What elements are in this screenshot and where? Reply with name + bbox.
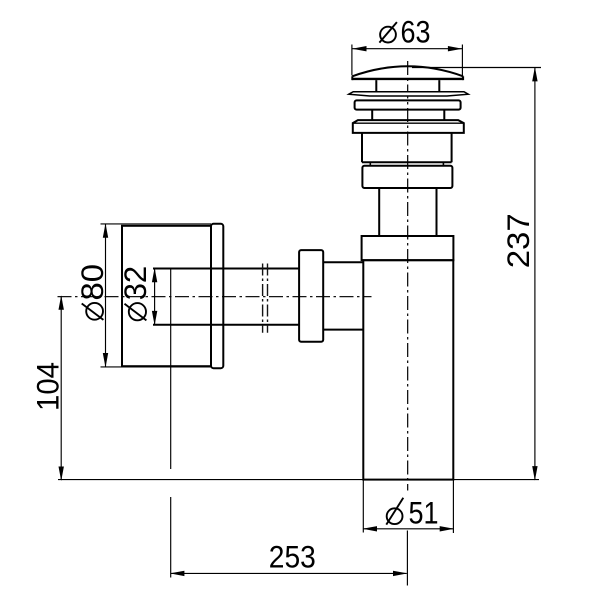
dimension 104 label bbox=[29, 362, 65, 411]
pipe joint marks bbox=[263, 264, 268, 333]
dimension 253 left extension bbox=[170, 269, 172, 578]
flat seal ring plate bbox=[355, 100, 461, 109]
drain body tube bbox=[362, 133, 452, 162]
cap stem bbox=[376, 80, 439, 92]
wall collar box bbox=[122, 226, 211, 366]
dimension phi51 label bbox=[386, 495, 438, 531]
svg-text:32: 32 bbox=[117, 266, 153, 301]
dimension phi32 label bbox=[117, 266, 153, 321]
short neck under seal plate bbox=[372, 110, 444, 121]
svg-text:51: 51 bbox=[409, 495, 439, 531]
inlet compression nut bbox=[299, 250, 323, 342]
horizontal centerline of inlet pipe bbox=[58, 296, 372, 298]
svg-text:237: 237 bbox=[500, 213, 536, 268]
dimension phi63 line bbox=[352, 46, 462, 51]
svg-text:253: 253 bbox=[269, 538, 316, 574]
dimension 237 label bbox=[500, 213, 536, 268]
bottom datum extension line bbox=[58, 479, 539, 481]
pop-up cap dome bbox=[352, 66, 464, 80]
dimension 237 line bbox=[532, 67, 537, 481]
dimension phi80 line bbox=[103, 223, 108, 367]
dimension phi51 extension lines bbox=[363, 480, 453, 533]
dimension phi63 label bbox=[379, 14, 430, 50]
svg-text:80: 80 bbox=[74, 264, 110, 301]
svg-text:104: 104 bbox=[29, 362, 65, 411]
thread relief band bbox=[370, 162, 443, 166]
tailpiece tube bbox=[379, 188, 436, 236]
dimension phi32 line bbox=[152, 268, 157, 326]
bottle trap lid bbox=[362, 236, 454, 260]
dimension phi80 extension lines bbox=[101, 224, 213, 367]
dimension phi80 label bbox=[74, 264, 110, 320]
bottle trap body bbox=[363, 260, 453, 479]
beveled flange of drain body bbox=[353, 120, 464, 133]
vertical centerline of drain assembly bbox=[407, 61, 409, 491]
dimension 253 line bbox=[170, 571, 408, 576]
dimension phi51 line bbox=[363, 526, 455, 531]
inlet pipe bbox=[153, 269, 299, 325]
wall flange plate bbox=[211, 224, 223, 368]
dimension 253 label bbox=[269, 538, 316, 574]
dimension phi63 extension lines bbox=[352, 45, 463, 78]
dimension 104 line bbox=[59, 295, 64, 481]
dimension 237 top extension bbox=[412, 67, 541, 69]
dimension 253 right extension bbox=[406, 531, 408, 586]
locknut bbox=[362, 166, 452, 188]
inlet sleeve at trap bbox=[323, 262, 363, 329]
thin saucer washer bbox=[349, 92, 469, 96]
svg-text:63: 63 bbox=[401, 14, 431, 50]
